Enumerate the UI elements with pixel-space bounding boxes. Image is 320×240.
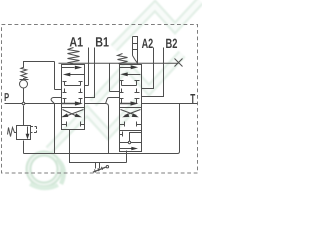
svg-text:A2: A2 bbox=[142, 36, 154, 51]
svg-text:B1: B1 bbox=[95, 34, 109, 49]
svg-text:B2: B2 bbox=[166, 36, 178, 51]
svg-text:T: T bbox=[190, 91, 195, 106]
svg-text:P: P bbox=[4, 92, 9, 104]
svg-text:A1: A1 bbox=[69, 34, 83, 49]
